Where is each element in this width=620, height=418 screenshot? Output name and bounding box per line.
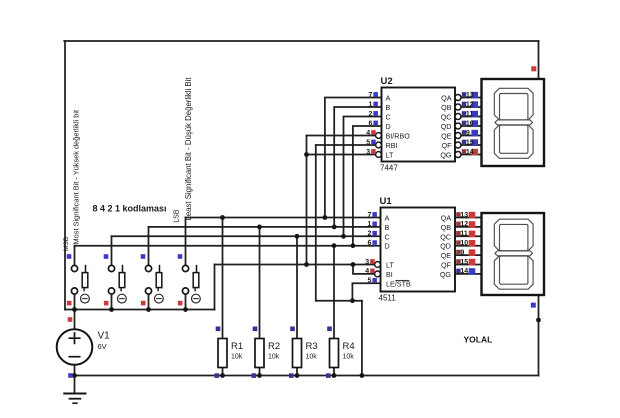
op-amp U1 4511 BCD to 7-segment latch decoder box [381, 208, 456, 292]
wire V1 positive to switch rail [74, 310, 76, 330]
U1 left pin numbers and state squares [365, 212, 377, 285]
svg-text:A: A [386, 94, 391, 103]
svg-text:13: 13 [460, 212, 468, 219]
resistor R1 [218, 339, 243, 368]
svg-text:9: 9 [460, 249, 464, 256]
svg-text:U2: U2 [381, 76, 393, 87]
svg-text:QE: QE [441, 251, 452, 260]
svg-text:10k: 10k [343, 354, 355, 361]
wire net B riser to U2 pin B [334, 107, 381, 227]
svg-text:15: 15 [466, 139, 474, 146]
junction tie net at U2 vertical [304, 262, 309, 267]
svg-text:A: A [385, 214, 390, 223]
svg-text:R4: R4 [343, 341, 355, 352]
wire U1 LT pin stub [353, 264, 376, 266]
svg-text:BI/RBO: BI/RBO [386, 132, 411, 141]
wire V+ left vertical rail [64, 41, 66, 310]
svg-text:5: 5 [367, 278, 371, 285]
wire net D riser to U2 pin D [353, 126, 382, 246]
wire U2 outputs QA-QG to display DS1 [461, 98, 482, 155]
svg-text:QB: QB [441, 223, 452, 232]
svg-text:8 4 2 1 kodlaması: 8 4 2 1 kodlaması [93, 204, 167, 214]
svg-text:14: 14 [466, 149, 474, 156]
switch SW2 [108, 265, 126, 309]
svg-text:LSB: LSB [173, 209, 180, 223]
wire tie riser from switch rail up [214, 265, 216, 310]
svg-text:QA: QA [441, 214, 452, 223]
U1 active-low input bubbles LT BI [375, 262, 381, 277]
svg-text:QC: QC [440, 232, 451, 241]
svg-text:QF: QF [442, 141, 453, 150]
svg-text:11: 11 [460, 231, 468, 238]
wire V1 negative to ground [74, 365, 76, 394]
svg-text:YOLAL: YOLAL [464, 335, 493, 345]
svg-text:QA: QA [441, 94, 452, 103]
wire resistor R3 bottom to ground rail [296, 368, 298, 376]
wire RBI vertical to LE/STB net [315, 145, 317, 301]
svg-text:10k: 10k [231, 354, 243, 361]
switch SW4 state square (bottom, logic 1) [178, 301, 183, 306]
wire resistor R4 bottom to ground rail [333, 368, 335, 376]
svg-text:QE: QE [441, 132, 452, 141]
svg-text:7447: 7447 [380, 164, 398, 173]
wire LE/STB horizontal [316, 300, 362, 302]
switch SW3 state square (bottom, logic 1) [141, 301, 146, 306]
junction R3 at ground rail [295, 373, 300, 378]
svg-text:2: 2 [367, 231, 371, 238]
svg-text:V1: V1 [98, 331, 111, 342]
resistor R3 top state square [290, 327, 295, 332]
wire net C horizontal to U1 pin C [112, 235, 381, 237]
7-segment display DS2 (common cathode, driven by U1) [482, 213, 545, 295]
svg-text:R3: R3 [306, 341, 318, 352]
junction net A at resistor [220, 215, 225, 220]
resistor R1 bottom state square [215, 373, 220, 378]
svg-text:14: 14 [460, 268, 468, 275]
svg-text:13: 13 [466, 92, 474, 99]
svg-text:12: 12 [460, 221, 468, 228]
junction tie net at U1 LT/BI [351, 262, 356, 267]
wire net C drop to resistor [296, 236, 298, 338]
svg-text:6V: 6V [98, 342, 107, 351]
svg-text:10: 10 [466, 120, 474, 127]
wire U1 BI pin stub [353, 265, 376, 274]
switch SW4 state square (top, logic 0) [178, 254, 183, 259]
switch SW1 state square (bottom, logic 1) [67, 301, 72, 306]
svg-text:6: 6 [368, 120, 372, 127]
svg-text:7: 7 [367, 212, 371, 219]
resistor R2 [255, 339, 280, 368]
svg-text:Least Significant Bit - Düşük: Least Significant Bit - Düşük Değerlikli… [184, 77, 193, 221]
junction U2 LT tie [304, 152, 309, 157]
svg-text:B: B [386, 103, 391, 112]
svg-text:LT: LT [386, 151, 394, 160]
ground symbol [64, 394, 85, 404]
wire resistor R1 bottom to ground rail [222, 368, 224, 376]
svg-text:10k: 10k [306, 354, 318, 361]
wire net B horizontal to U1 pin B [149, 226, 381, 228]
U2 left pin numbers and state squares [366, 92, 378, 156]
U1 right pin names [440, 214, 452, 279]
junction net C at resistor [295, 234, 300, 239]
wire net A drop to resistor [222, 218, 224, 339]
junction SW4 at switch rail [183, 307, 188, 312]
svg-text:2: 2 [368, 111, 372, 118]
wire V+ top rail [64, 40, 538, 42]
svg-text:B: B [385, 223, 390, 232]
U2 inverted output bubbles [455, 95, 461, 158]
U1 left pin names [385, 214, 411, 289]
svg-text:6: 6 [367, 240, 371, 247]
junction net C at U2 branch [341, 234, 346, 239]
7-segment display DS1 (common anode, driven by U2) [482, 79, 545, 166]
battery V1 6V [57, 329, 110, 365]
svg-text:LT: LT [386, 261, 394, 270]
svg-text:C: C [385, 232, 390, 241]
svg-text:3: 3 [366, 149, 370, 156]
wire resistor R2 bottom to ground rail [259, 368, 261, 376]
wire V+ drop to display DS1 common anode [538, 41, 540, 79]
svg-text:QD: QD [440, 242, 451, 251]
switch SW1 state square (top, logic 0) [67, 254, 72, 259]
svg-text:QF: QF [441, 261, 452, 270]
svg-text:QD: QD [441, 122, 452, 131]
resistor R3 [293, 339, 318, 368]
wire U2 BI/RBO pin stub [307, 135, 376, 137]
switch SW2 state square (bottom, logic 1) [104, 301, 109, 306]
junction net D at resistor [332, 243, 337, 248]
svg-text:4: 4 [365, 268, 369, 275]
switch SW2 state square (top, logic 0) [104, 254, 109, 259]
svg-text:U1: U1 [380, 196, 393, 207]
wire U2 RBI pin stub [316, 144, 376, 146]
wire LT/BI tie horizontal [215, 264, 354, 266]
svg-text:D: D [386, 122, 391, 131]
svg-text:QC: QC [441, 113, 452, 122]
wire net A horizontal to U1 pin A [186, 217, 381, 219]
U1 LE/STB overline [396, 279, 409, 281]
wire U2 BI/RBO-LT tie vertical [306, 136, 308, 265]
junction net A at U2 branch [323, 215, 328, 220]
wire net C: switch riser [111, 236, 113, 265]
junction net D at U2 branch [351, 243, 356, 248]
svg-text:9: 9 [466, 130, 470, 137]
svg-text:11: 11 [466, 111, 474, 118]
switch SW3 [145, 265, 163, 309]
svg-text:D: D [385, 242, 390, 251]
resistor R3 bottom state square [289, 373, 294, 378]
junction R2 at ground rail [257, 373, 262, 378]
wire net B drop to resistor [259, 227, 261, 339]
resistor R4 top state square [327, 327, 332, 332]
wire net A riser to U2 pin A [325, 98, 382, 218]
junction LE/STB net [350, 298, 355, 303]
junction net B at U2 branch [332, 225, 337, 230]
resistor R1 top state square [216, 327, 221, 332]
resistor R4 bottom state square [326, 373, 331, 378]
svg-text:5: 5 [366, 139, 370, 146]
U2 active-low input bubbles [376, 133, 382, 158]
svg-text:10: 10 [460, 240, 468, 247]
svg-text:BI: BI [386, 270, 393, 279]
DS1 common anode state square (logic 1) [531, 66, 536, 71]
wire U2 LT pin stub [307, 154, 376, 156]
wire net D: switch riser [74, 246, 76, 266]
svg-text:4511: 4511 [379, 294, 397, 303]
U1 right pin numbers and state squares [456, 212, 475, 275]
wire net C riser to U2 pin C [344, 117, 382, 237]
svg-text:1: 1 [367, 221, 371, 228]
svg-text:R2: R2 [268, 341, 280, 352]
junction SW1 at switch rail [72, 307, 77, 312]
wire ground bottom rail [75, 375, 539, 377]
U2 right pin numbers and state squares [462, 92, 478, 156]
svg-text:7: 7 [368, 92, 372, 99]
junction net B at resistor [257, 225, 262, 230]
svg-text:QG: QG [440, 270, 452, 279]
junction V1 negative node [72, 373, 77, 378]
ground rail state square (logic 0) [68, 373, 73, 378]
op-amp U2 7447 BCD to 7-segment decoder box [382, 88, 456, 162]
svg-text:1: 1 [368, 101, 372, 108]
V1 positive wire state square (logic 1) [68, 317, 73, 322]
svg-text:12: 12 [466, 101, 474, 108]
wire net A: switch riser [185, 218, 187, 266]
wire LE/STB drop to ground rail [361, 301, 363, 376]
junction LE/STB net at ground rail [360, 373, 365, 378]
wire LE/STB riser to U1 pin 5 [352, 283, 380, 300]
svg-text:C: C [386, 113, 391, 122]
wire net D horizontal to U1 pin D [75, 245, 381, 247]
svg-text:3: 3 [365, 259, 369, 266]
svg-text:QB: QB [441, 103, 452, 112]
svg-text:15: 15 [460, 259, 468, 266]
junction R4 at ground rail [332, 373, 337, 378]
svg-text:10k: 10k [268, 354, 280, 361]
svg-text:MSB: MSB [63, 237, 70, 251]
resistor R2 top state square [253, 327, 258, 332]
junction SW3 at switch rail [146, 307, 151, 312]
resistor R2 bottom state square [252, 373, 257, 378]
junction R1 at ground rail [220, 373, 225, 378]
wire U1 outputs QA-QG to display DS2 [455, 218, 482, 274]
svg-text:4: 4 [366, 130, 370, 137]
switch SW1 [71, 265, 89, 309]
wire net B: switch riser [148, 227, 150, 266]
wire switch common rail (V+) [65, 309, 215, 311]
U2 left pin names [386, 94, 411, 160]
junction SW2 at switch rail [109, 307, 114, 312]
DS2 common cathode state square (logic 0) [531, 303, 536, 308]
switch SW4 [182, 265, 200, 309]
junction on DS2 common wire [536, 318, 541, 323]
svg-text:RBI: RBI [386, 141, 398, 150]
wire display DS2 common cathode drop [538, 295, 540, 376]
svg-text:Most Significant Bit - Yüksek: Most Significant Bit - Yüksek değerlikli… [72, 110, 81, 245]
resistor R4 [330, 339, 355, 368]
wire net D drop to resistor [333, 246, 335, 339]
svg-text:R1: R1 [231, 341, 243, 352]
U2 right pin names [440, 94, 452, 160]
svg-text:QG: QG [440, 151, 452, 160]
switch SW3 state square (top, logic 0) [141, 254, 146, 259]
